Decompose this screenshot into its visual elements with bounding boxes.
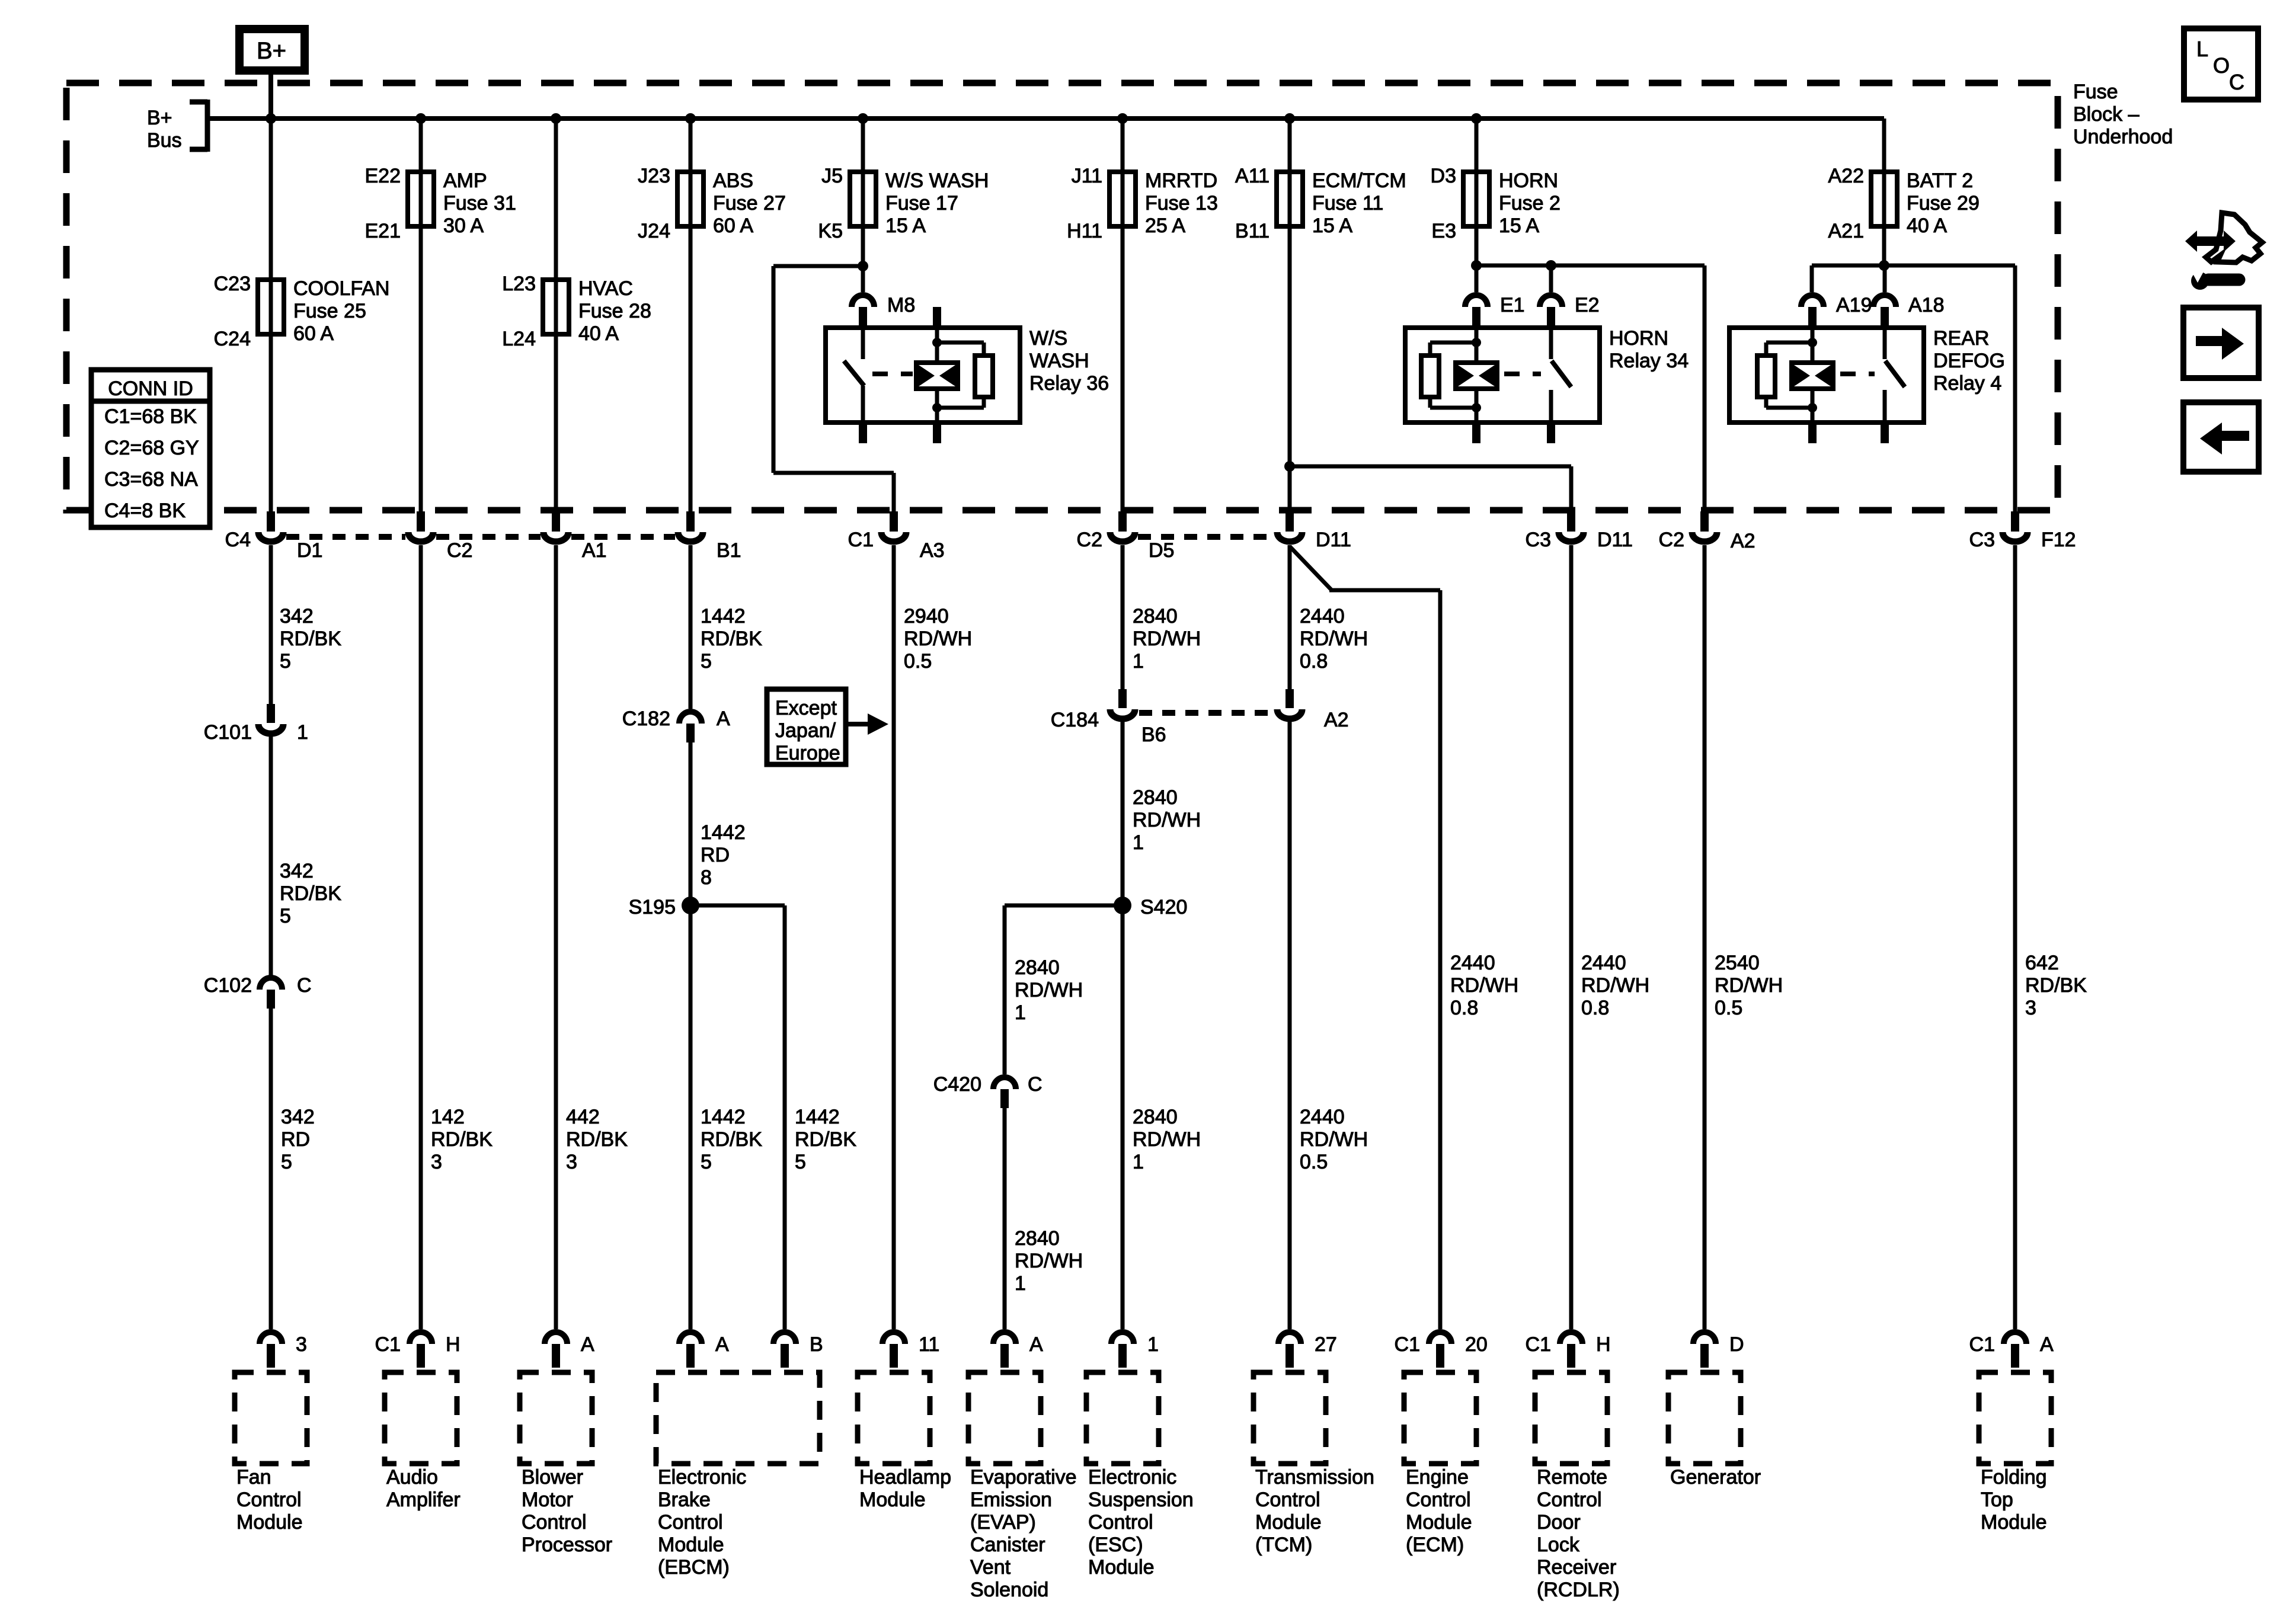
connector C420 pin C [993,1077,1016,1089]
wire ABS branch [689,119,693,513]
wire resistor top [937,341,984,345]
svg-text:(ESC): (ESC) [1088,1534,1143,1556]
svg-text:Control: Control [522,1511,587,1534]
svg-text:1442: 1442 [701,821,746,844]
wire B+ feed [268,70,273,119]
svg-text:RD/WH: RD/WH [904,628,972,650]
pin stub [1547,422,1555,443]
module Electronic Suspension Control (ESC) Module [1086,1372,1159,1464]
svg-text:C2: C2 [447,539,472,562]
svg-text:142: 142 [431,1106,465,1128]
svg-text:Bus: Bus [147,129,182,152]
svg-text:C2=68 GY: C2=68 GY [104,437,199,459]
svg-text:Generator: Generator [1670,1466,1761,1489]
svg-text:D: D [1729,1333,1744,1356]
power symbol B+ [239,29,305,71]
svg-text:A11: A11 [1235,165,1269,187]
svg-text:RD/BK: RD/BK [280,882,341,905]
wire HVAC branch [554,119,558,513]
svg-text:Motor: Motor [522,1489,573,1511]
pin stub [1808,422,1817,443]
svg-text:AMP: AMP [443,169,487,192]
connector C4 D1 [267,511,275,532]
wire 342 RD [269,1009,273,1329]
junction on B+ bus [266,113,276,124]
svg-text:Fuse: Fuse [2073,81,2118,103]
svg-text:E21: E21 [365,220,401,242]
svg-text:Module: Module [1088,1556,1155,1579]
svg-text:Control: Control [1406,1489,1471,1511]
wire coil bottom [1475,389,1479,422]
svg-text:RD: RD [281,1128,310,1151]
fuse BATT 2 Fuse 29 [1871,172,1897,226]
wire defog/fold feed [1812,264,2015,268]
svg-text:342: 342 [281,1106,315,1128]
connector C2 D5 [1118,511,1127,532]
wire to headlamp feed [773,264,863,268]
wire MRRTD branch [1121,119,1125,513]
svg-text:A1: A1 [582,539,607,562]
connector E2 [1540,295,1562,307]
svg-text:1: 1 [1015,1001,1026,1024]
svg-text:1: 1 [1015,1272,1026,1295]
svg-text:60 A: 60 A [713,215,753,237]
node S195 [682,897,699,914]
svg-text:B+: B+ [257,38,286,64]
svg-text:E2: E2 [1575,294,1600,316]
connector A19 [1801,295,1824,307]
connector C182 pin A [679,712,702,724]
svg-text:15 A: 15 A [1499,215,1539,237]
svg-text:2840: 2840 [1133,605,1178,628]
module Electronic Brake Control Module (EBCM) [656,1372,820,1464]
svg-text:Control: Control [1088,1511,1153,1534]
svg-text:Control: Control [658,1511,723,1534]
svg-text:Electronic: Electronic [658,1466,746,1489]
svg-text:(TCM): (TCM) [1255,1534,1312,1556]
connector M8 [852,295,874,307]
wire 2440 RD/WH RCDLR [1569,545,1574,1329]
svg-text:B11: B11 [1235,220,1269,242]
note arrow [846,722,868,726]
svg-text:WASH: WASH [1029,350,1089,372]
connector row [1138,534,1274,540]
connector C3 F12 [2011,511,2019,532]
svg-text:L24: L24 [502,328,536,350]
wire 2940 RD/WH [892,545,896,1329]
svg-text:Fuse 29: Fuse 29 [1907,192,1980,215]
connector C1 20 module pin [1429,1332,1451,1344]
svg-text:342: 342 [280,605,314,628]
svg-text:A3: A3 [920,539,945,562]
pin stub [1881,422,1889,443]
connector C184 pin B6 [1118,689,1127,708]
connector A1 [552,511,560,532]
wire 2840 RD/WH [1003,1108,1007,1329]
module Fan Control Module [235,1372,307,1464]
wire coil bottom [935,389,939,422]
svg-text:1442: 1442 [701,605,746,628]
svg-text:E22: E22 [365,165,401,187]
connector C3 D11 [1567,511,1575,532]
pin stub [1472,422,1480,443]
svg-text:L: L [2196,37,2208,61]
svg-text:1: 1 [1133,831,1144,854]
wire to RCDLR feed [1290,465,1571,469]
junction coil bottom [1808,403,1817,412]
svg-text:RD/WH: RD/WH [1581,974,1649,997]
wire 342 RD/BK [269,736,273,975]
svg-text:CONN ID: CONN ID [108,377,193,400]
svg-text:W/S: W/S [1029,327,1067,350]
wire 2440 RD/WH [1288,722,1292,1329]
svg-text:2840: 2840 [1133,786,1178,809]
wire resistor bottom [1764,397,1769,408]
icon wrench [2191,272,2209,290]
wire resistor top [1766,341,1812,345]
fuse COOLFAN Fuse 25 [258,280,284,334]
junction coil bottom [1472,403,1481,412]
connector C102 pin C [260,978,282,990]
svg-text:Electronic: Electronic [1088,1466,1176,1489]
relay switch [1883,328,1887,359]
svg-text:15 A: 15 A [885,215,926,237]
svg-text:2540: 2540 [1715,952,1760,974]
svg-text:Fuse 2: Fuse 2 [1499,192,1560,215]
svg-text:Fuse 31: Fuse 31 [443,192,516,215]
svg-text:Module: Module [658,1534,724,1556]
svg-text:8: 8 [701,866,712,889]
svg-text:Vent: Vent [970,1556,1011,1579]
svg-text:HORN: HORN [1499,169,1558,192]
svg-text:RD/BK: RD/BK [566,1128,628,1151]
svg-text:Except: Except [775,697,837,719]
svg-text:0.5: 0.5 [1300,1151,1328,1173]
svg-text:Top: Top [1981,1489,2013,1511]
junction B11 split [1284,461,1295,472]
wire ECM/TCM branch [1288,119,1292,513]
wire resistor bottom [1428,397,1432,408]
node S420 [1114,897,1131,914]
wire COOLFAN branch [269,119,273,513]
connector 27 module pin [1278,1332,1301,1344]
svg-text:Door: Door [1537,1511,1581,1534]
svg-text:RD/BK: RD/BK [431,1128,493,1151]
connector A module pin [993,1332,1016,1344]
svg-text:J23: J23 [638,165,670,187]
relay resistor [1757,356,1775,397]
svg-text:Folding: Folding [1981,1466,2047,1489]
svg-text:Control: Control [1537,1489,1602,1511]
svg-text:RD/WH: RD/WH [1133,628,1201,650]
svg-text:D1: D1 [297,539,322,562]
svg-text:C2: C2 [1659,529,1684,551]
svg-text:3: 3 [2025,997,2036,1019]
svg-text:B+: B+ [147,107,172,129]
svg-text:342: 342 [280,860,314,882]
svg-text:K5: K5 [818,220,843,242]
note box Except Japan/Europe [767,689,846,764]
module Audio Amplifer [385,1372,457,1464]
svg-text:Brake: Brake [658,1489,711,1511]
svg-text:ECM/TCM: ECM/TCM [1312,169,1406,192]
connector C2 A2 [1700,511,1709,532]
junction coil top [1472,338,1481,347]
relay box [826,328,1020,422]
svg-text:BATT 2: BATT 2 [1907,169,1973,192]
svg-text:40 A: 40 A [1907,215,1947,237]
wire HORN branch [1475,119,1479,292]
svg-text:Fuse 13: Fuse 13 [1145,192,1218,215]
svg-text:A21: A21 [1828,220,1865,242]
pin stub [859,422,867,443]
svg-text:Block –: Block – [2073,103,2140,126]
module Headlamp Module [858,1372,930,1464]
connector C1 H module pin [1560,1332,1582,1344]
svg-text:5: 5 [701,1151,712,1173]
wire 142 RD/BK [419,545,423,1329]
svg-text:B6: B6 [1141,724,1166,746]
svg-text:D5: D5 [1149,539,1174,562]
svg-text:C3: C3 [1969,529,1995,551]
svg-text:(RCDLR): (RCDLR) [1537,1579,1620,1601]
svg-text:20: 20 [1465,1333,1488,1356]
wire AMP branch [419,119,423,513]
svg-text:Fuse 27: Fuse 27 [713,192,786,215]
svg-text:RD/BK: RD/BK [701,1128,762,1151]
wire to E2 [1549,265,1553,292]
fuse ECM/TCM Fuse 11 [1277,172,1303,226]
svg-text:Receiver: Receiver [1537,1556,1616,1579]
svg-text:B1: B1 [717,539,741,562]
relay box [1729,328,1924,422]
wire switch bottom [1549,390,1553,422]
svg-text:H: H [446,1333,461,1356]
junction coil bottom [932,403,942,412]
svg-text:Fuse 11: Fuse 11 [1312,192,1383,215]
wire 2840 RD/WH [1121,545,1125,689]
svg-text:5: 5 [281,1151,292,1173]
switch-coil linkage [872,372,913,376]
wire 342 RD/BK [269,545,273,704]
svg-text:Control: Control [1255,1489,1320,1511]
svg-text:Module: Module [1406,1511,1472,1534]
svg-text:E1: E1 [1500,294,1525,316]
svg-text:RD/BK: RD/BK [701,628,762,650]
wire 1442 RD/BK [689,545,693,709]
svg-text:1: 1 [297,721,308,744]
relay resistor [1421,356,1439,397]
module Generator [1668,1372,1741,1464]
CONN ID table [91,370,210,527]
svg-text:Underhood: Underhood [2073,126,2173,148]
wire EBCM B branch [690,904,785,908]
svg-text:1: 1 [1133,1151,1144,1173]
fuse W/S WASH Fuse 17 [850,172,876,226]
wire coil feed [1475,328,1479,363]
wire ECM feed [1290,546,1332,590]
svg-text:C1: C1 [1526,1333,1551,1356]
relay coil [916,363,958,389]
connector A module pin [545,1332,567,1344]
svg-text:C1: C1 [1395,1333,1420,1356]
svg-text:H: H [1596,1333,1611,1356]
svg-text:5: 5 [280,905,291,927]
pin stub [933,307,941,328]
svg-text:Headlamp: Headlamp [859,1466,951,1489]
switch blade [844,361,864,386]
svg-text:C: C [2229,70,2244,94]
svg-text:RD/WH: RD/WH [1015,1250,1083,1272]
svg-text:RD/WH: RD/WH [1300,628,1368,650]
svg-text:Blower: Blower [522,1466,583,1489]
svg-text:(EBCM): (EBCM) [658,1556,730,1579]
svg-text:Transmission: Transmission [1255,1466,1374,1489]
svg-text:RD/WH: RD/WH [1133,1128,1201,1151]
svg-text:1: 1 [1133,650,1144,673]
svg-text:0.8: 0.8 [1450,997,1478,1019]
relay box [1405,328,1600,422]
svg-text:2440: 2440 [1300,605,1345,628]
svg-text:0.5: 0.5 [904,650,932,673]
junction E3 split [1471,260,1482,271]
svg-text:B: B [810,1333,823,1356]
junction E2 tap [1546,260,1556,271]
wire 642 RD/BK [2013,545,2017,1329]
svg-text:0.8: 0.8 [1581,997,1609,1019]
svg-text:5: 5 [795,1151,806,1173]
relay switch [861,328,865,359]
svg-text:A19: A19 [1836,294,1872,316]
svg-text:30 A: 30 A [443,215,484,237]
junction on B+ bus [1117,113,1128,124]
wire EVAP branch [1005,904,1123,908]
svg-text:C1: C1 [375,1333,401,1356]
svg-text:Lock: Lock [1537,1534,1580,1556]
svg-text:5: 5 [280,650,291,673]
svg-text:RD/WH: RD/WH [1450,974,1518,997]
svg-text:Relay 36: Relay 36 [1029,372,1109,395]
relay coil [1456,363,1497,389]
switch-coil linkage [1840,372,1875,376]
svg-text:J11: J11 [1072,165,1102,187]
svg-text:Fan: Fan [236,1466,271,1489]
svg-text:Module: Module [1255,1511,1322,1534]
svg-text:25 A: 25 A [1145,215,1185,237]
svg-text:2440: 2440 [1450,952,1495,974]
svg-text:27: 27 [1315,1333,1337,1356]
module Remote Control Door Lock Receiver (RCDLR) [1535,1372,1607,1464]
svg-text:RD/BK: RD/BK [2025,974,2087,997]
svg-text:C23: C23 [214,273,251,295]
svg-text:Suspension: Suspension [1088,1489,1194,1511]
connector 11 module pin [882,1332,905,1344]
svg-text:Module: Module [1981,1511,2047,1534]
connector C1 H module pin [410,1332,432,1344]
svg-text:O: O [2213,53,2230,78]
svg-text:C24: C24 [214,328,251,350]
svg-text:Control: Control [236,1489,302,1511]
svg-text:MRRTD: MRRTD [1145,169,1217,192]
svg-text:ABS: ABS [713,169,753,192]
svg-text:Audio: Audio [386,1466,438,1489]
svg-text:C184: C184 [1051,709,1099,731]
svg-text:Remote: Remote [1537,1466,1607,1489]
svg-text:Engine: Engine [1406,1466,1469,1489]
connector B1 [686,511,695,532]
svg-text:Fuse 17: Fuse 17 [885,192,958,215]
svg-text:HVAC: HVAC [578,277,633,300]
svg-text:40 A: 40 A [578,322,619,345]
svg-text:5: 5 [701,650,712,673]
svg-text:RD/WH: RD/WH [1015,979,1083,1001]
svg-text:C: C [1028,1073,1043,1096]
svg-text:F12: F12 [2041,529,2076,551]
svg-text:A: A [2040,1333,2054,1356]
wire coil bottom [1811,389,1815,422]
svg-text:C182: C182 [622,708,670,730]
svg-text:REAR: REAR [1933,327,1989,350]
wire resistor bottom [982,397,986,408]
svg-text:DEFOG: DEFOG [1933,350,2005,372]
connector row [571,534,675,540]
svg-text:1: 1 [1147,1333,1159,1356]
svg-text:1442: 1442 [795,1106,840,1128]
wire resistor top [1430,341,1476,345]
svg-text:Europe: Europe [775,742,840,764]
svg-text:Japan/: Japan/ [775,719,836,742]
svg-text:A: A [1029,1333,1043,1356]
icon arrow-right box [2183,308,2259,378]
pin stub [933,422,941,443]
svg-text:2840: 2840 [1015,956,1060,979]
connector E1 [1465,295,1488,307]
fuse HVAC Fuse 28 [543,280,569,334]
relay resistor [975,356,993,397]
svg-text:A22: A22 [1828,165,1865,187]
junction on B+ bus [1284,113,1295,124]
connector D11 [1285,511,1294,532]
connector 1 module pin [1111,1332,1134,1344]
svg-text:Amplifer: Amplifer [386,1489,461,1511]
svg-text:C102: C102 [204,974,252,997]
svg-text:1442: 1442 [701,1106,746,1128]
relay switch [1549,328,1553,359]
svg-text:Solenoid: Solenoid [970,1579,1048,1601]
junction on B+ bus [858,113,868,124]
svg-text:C420: C420 [933,1073,981,1096]
svg-text:Relay 34: Relay 34 [1609,350,1689,372]
svg-text:Evaporative: Evaporative [970,1466,1077,1489]
connector row C184-A2 [1139,710,1274,716]
icon service arrows [2185,231,2236,252]
svg-text:A: A [717,708,730,730]
connector C2 [417,511,425,532]
svg-text:C101: C101 [204,721,252,744]
svg-text:M8: M8 [887,294,915,316]
svg-text:C3=68 NA: C3=68 NA [104,468,198,491]
svg-text:C1=68 BK: C1=68 BK [104,405,197,428]
svg-text:3: 3 [566,1151,577,1173]
svg-text:2840: 2840 [1015,1227,1060,1250]
wire B+ bus [207,116,1884,121]
svg-text:C4=8 BK: C4=8 BK [104,500,186,522]
wire HORN feed bus [1476,264,1705,268]
icon arrow-left box [2183,402,2259,472]
relay coil [1792,363,1833,389]
fuse HORN Fuse 2 [1463,172,1489,226]
wire W/S WASH branch [861,119,865,292]
